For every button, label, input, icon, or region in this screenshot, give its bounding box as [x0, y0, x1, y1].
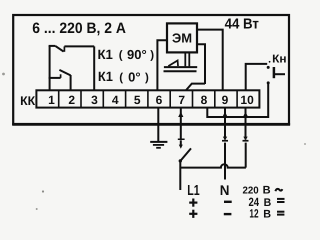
svg-text:L1: L1	[187, 183, 199, 199]
svg-text:5: 5	[134, 93, 141, 107]
svg-text:N: N	[220, 182, 230, 198]
svg-text:В: В	[263, 209, 271, 221]
svg-text:7: 7	[178, 93, 185, 107]
svg-text:4: 4	[112, 93, 119, 107]
svg-text:К1: К1	[98, 69, 113, 84]
svg-text:44 Вт: 44 Вт	[225, 16, 259, 32]
svg-text:90°: 90°	[127, 47, 147, 62]
svg-text:В: В	[263, 184, 271, 196]
svg-text:К1: К1	[98, 47, 114, 62]
svg-text:10: 10	[240, 93, 254, 107]
svg-text:КК: КК	[20, 94, 35, 108]
svg-text:12: 12	[249, 207, 258, 221]
svg-text:6 ... 220 В, 2 А: 6 ... 220 В, 2 А	[32, 20, 126, 37]
svg-text:0°: 0°	[128, 69, 140, 84]
svg-text:ЭМ: ЭМ	[172, 31, 192, 46]
svg-text:2: 2	[68, 93, 75, 107]
svg-text:Кн: Кн	[272, 53, 286, 65]
svg-text:): )	[150, 50, 154, 62]
svg-text:3: 3	[91, 93, 98, 107]
svg-text:В: В	[264, 197, 272, 209]
svg-text:1: 1	[48, 93, 55, 107]
svg-text:(: (	[119, 72, 123, 84]
svg-text:(: (	[119, 50, 123, 62]
svg-text:): )	[145, 72, 149, 84]
svg-text:9: 9	[222, 93, 229, 107]
svg-text:8: 8	[201, 93, 208, 107]
svg-text:6: 6	[156, 93, 163, 107]
